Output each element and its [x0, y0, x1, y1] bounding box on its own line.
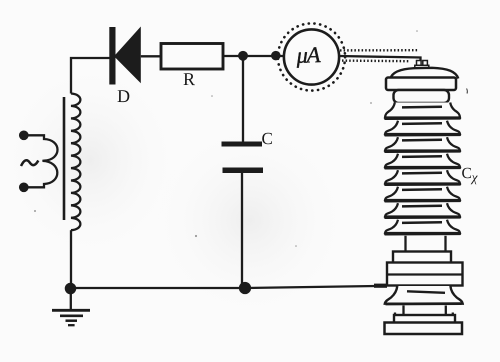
svg-text:μA: μA [295, 42, 321, 68]
bushing Cx lower neck [404, 236, 406, 252]
bushing Cx top flange band [386, 78, 456, 91]
bushing Cx lower flare skirt [385, 286, 463, 304]
bushing shed 6 [385, 187, 460, 200]
capacitor C top plate [222, 142, 263, 147]
diode D triangle [114, 27, 141, 84]
bushing Cx lower step [393, 252, 451, 264]
label C [261, 129, 272, 148]
ground symbol [70, 288, 72, 310]
primary terminal dot top [20, 132, 27, 139]
screened lead lower dotted row [342, 59, 410, 62]
bushing shed 5 [385, 170, 460, 183]
label R [183, 69, 195, 89]
bushing shed 2 [385, 121, 460, 134]
node A junction dot [239, 52, 247, 60]
diode D cathode bar [109, 27, 115, 85]
capacitor C bottom plate [223, 168, 264, 174]
bushing Cx base plate [385, 323, 463, 335]
bushing Cx upper barrel segment [394, 90, 450, 103]
screened lead solid wire meter to bushing terminal [339, 56, 420, 62]
bushing Cx mounting band [387, 263, 463, 286]
bottom rail wire [71, 286, 376, 288]
ground node junction dot [66, 284, 75, 293]
bushing shed 1 [385, 103, 460, 118]
bushing shed 3 [385, 137, 460, 150]
svg-text:R: R [183, 69, 195, 89]
resistor R body [161, 44, 223, 70]
junction dot at meter [272, 52, 279, 59]
wire capacitor to bottom rail [241, 173, 243, 288]
paper speckles [34, 30, 418, 247]
wire top-left vertical (transformer secondary top to rail) [71, 58, 110, 94]
bushing Cx top terminal nubs [415, 61, 429, 69]
transformer T1 secondary winding [71, 94, 80, 231]
wire node A down to capacitor [242, 56, 244, 142]
bushing shed 7 [385, 203, 460, 216]
microammeter U1 dotted guard ring [278, 23, 345, 90]
junction dot capacitor/bottom rail [240, 283, 250, 293]
meter text uA [295, 42, 321, 68]
bushing shed 4 [385, 154, 460, 167]
wire secondary bottom to ground node [70, 230, 72, 288]
microammeter U1 body circle [284, 29, 339, 84]
transformer T1 primary winding [24, 135, 58, 187]
bushing Cx shed stack (8 skirts) [385, 103, 460, 235]
stray pen mark right of band [466, 89, 469, 94]
transformer T1 core [63, 97, 66, 220]
wire resistor to node A [223, 55, 284, 57]
wire diode to resistor [141, 55, 161, 57]
label Cx [461, 165, 477, 185]
wire nub into bushing band [374, 284, 387, 288]
AC source tilde symbol [21, 160, 38, 166]
bushing Cx lower neck 2 [402, 306, 404, 316]
svg-text:C: C [261, 129, 272, 148]
bushing Cx base band [394, 313, 396, 317]
bushing shed 8 [385, 220, 460, 233]
svg-text:D: D [117, 86, 130, 106]
primary terminal dot bottom [20, 184, 27, 191]
screened lead upper dotted row [340, 49, 419, 52]
label D [117, 86, 130, 106]
bushing Cx dome cap [391, 68, 459, 79]
